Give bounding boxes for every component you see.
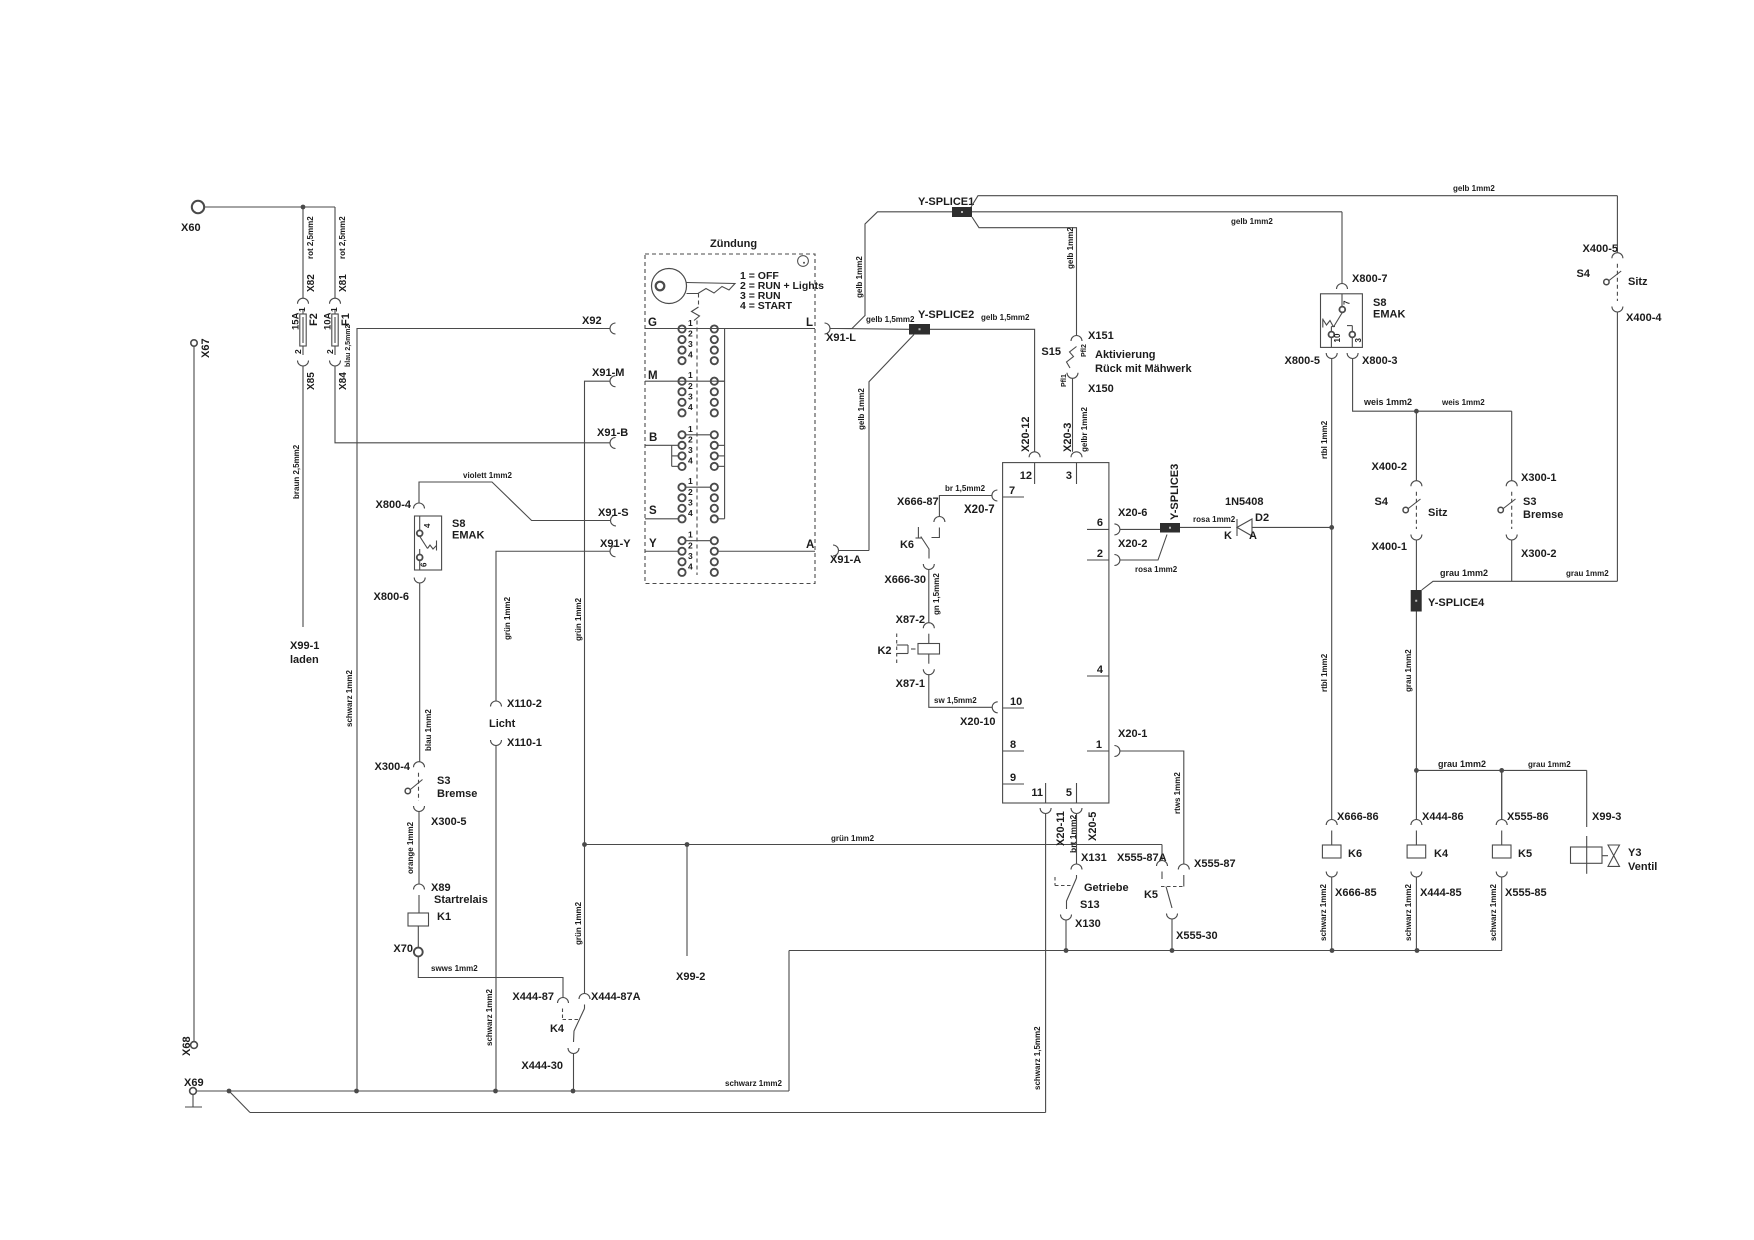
svg-text:Zündung: Zündung bbox=[710, 238, 757, 250]
svg-text:X99-3: X99-3 bbox=[1592, 811, 1621, 823]
svg-text:K6: K6 bbox=[900, 539, 914, 551]
svg-text:3: 3 bbox=[688, 551, 693, 561]
svg-text:Y-SPLICE4: Y-SPLICE4 bbox=[1428, 597, 1485, 609]
svg-text:X666-86: X666-86 bbox=[1337, 811, 1379, 823]
svg-text:X91-L: X91-L bbox=[826, 332, 856, 344]
svg-text:weis 1mm2: weis 1mm2 bbox=[1363, 397, 1412, 407]
svg-text:Startrelais: Startrelais bbox=[434, 894, 488, 906]
svg-text:rot 2,5mm2: rot 2,5mm2 bbox=[338, 216, 347, 259]
svg-text:2: 2 bbox=[688, 540, 693, 550]
svg-text:7: 7 bbox=[1009, 485, 1015, 497]
svg-text:11: 11 bbox=[1031, 787, 1043, 799]
svg-text:3: 3 bbox=[1066, 470, 1072, 482]
svg-text:5: 5 bbox=[1066, 787, 1072, 799]
svg-text:X444-87A: X444-87A bbox=[591, 991, 641, 1003]
svg-text:4: 4 bbox=[688, 561, 693, 571]
svg-text:X130: X130 bbox=[1075, 918, 1101, 930]
svg-text:10: 10 bbox=[1333, 333, 1342, 342]
svg-text:4: 4 bbox=[688, 508, 693, 518]
svg-text:gelbr 1mm2: gelbr 1mm2 bbox=[1080, 407, 1089, 452]
svg-text:gn 1,5mm2: gn 1,5mm2 bbox=[932, 573, 941, 615]
svg-text:X81: X81 bbox=[338, 274, 349, 292]
svg-text:K4: K4 bbox=[550, 1023, 565, 1035]
svg-text:6: 6 bbox=[1097, 517, 1103, 529]
svg-text:grau 1mm2: grau 1mm2 bbox=[1438, 759, 1486, 769]
svg-text:3: 3 bbox=[688, 391, 693, 401]
svg-text:X800-6: X800-6 bbox=[374, 591, 409, 603]
svg-text:3: 3 bbox=[688, 339, 693, 349]
svg-text:schwarz 1mm2: schwarz 1mm2 bbox=[1404, 884, 1413, 941]
svg-text:S3: S3 bbox=[1523, 496, 1536, 508]
svg-text:X69: X69 bbox=[184, 1077, 204, 1089]
svg-text:2: 2 bbox=[688, 487, 693, 497]
svg-text:X800-4: X800-4 bbox=[376, 499, 412, 511]
svg-text:Pfl2: Pfl2 bbox=[1081, 344, 1088, 357]
svg-text:B: B bbox=[649, 432, 657, 444]
svg-text:grau 1mm2: grau 1mm2 bbox=[1440, 568, 1488, 578]
svg-text:X91-B: X91-B bbox=[597, 427, 628, 439]
svg-text:D2: D2 bbox=[1255, 512, 1269, 524]
svg-text:grün 1mm2: grün 1mm2 bbox=[831, 834, 875, 843]
svg-text:braun 2,5mm2: braun 2,5mm2 bbox=[292, 444, 301, 499]
svg-text:Bremse: Bremse bbox=[1523, 509, 1563, 521]
svg-text:S8: S8 bbox=[1373, 297, 1386, 309]
svg-text:X555-87: X555-87 bbox=[1194, 858, 1236, 870]
svg-text:4: 4 bbox=[688, 455, 693, 465]
svg-text:Ventil: Ventil bbox=[1628, 861, 1657, 873]
svg-text:1: 1 bbox=[329, 307, 339, 312]
svg-text:br 1,5mm2: br 1,5mm2 bbox=[945, 484, 986, 493]
svg-text:12: 12 bbox=[1020, 470, 1032, 482]
svg-text:gelb 1mm2: gelb 1mm2 bbox=[1066, 227, 1075, 269]
svg-text:schwarz 1mm2: schwarz 1mm2 bbox=[725, 1079, 782, 1088]
svg-text:schwarz 1mm2: schwarz 1mm2 bbox=[1319, 884, 1328, 941]
svg-text:X300-4: X300-4 bbox=[375, 761, 411, 773]
svg-text:X444-87: X444-87 bbox=[512, 991, 554, 1003]
svg-text:6: 6 bbox=[420, 562, 429, 567]
svg-text:Y3: Y3 bbox=[1628, 847, 1641, 859]
svg-text:10: 10 bbox=[1010, 696, 1022, 708]
svg-text:Pfl1: Pfl1 bbox=[1061, 374, 1068, 387]
svg-text:X91-Y: X91-Y bbox=[600, 538, 631, 550]
svg-text:L: L bbox=[806, 317, 813, 329]
svg-text:X84: X84 bbox=[338, 372, 349, 390]
svg-text:X20-6: X20-6 bbox=[1118, 507, 1147, 519]
svg-text:gelb 1mm2: gelb 1mm2 bbox=[857, 388, 866, 430]
svg-text:sw 1,5mm2: sw 1,5mm2 bbox=[934, 696, 977, 705]
svg-text:Bremse: Bremse bbox=[437, 788, 477, 800]
svg-text:K1: K1 bbox=[437, 911, 451, 923]
svg-text:X151: X151 bbox=[1088, 330, 1114, 342]
svg-text:gelb 1,5mm2: gelb 1,5mm2 bbox=[866, 315, 915, 324]
svg-text:2: 2 bbox=[293, 349, 303, 354]
svg-text:S3: S3 bbox=[437, 775, 450, 787]
svg-text:1: 1 bbox=[688, 318, 693, 328]
svg-text:X87-1: X87-1 bbox=[896, 678, 925, 690]
svg-text:4: 4 bbox=[423, 523, 432, 528]
svg-text:rtbl 1mm2: rtbl 1mm2 bbox=[1320, 420, 1329, 459]
svg-text:grün 1mm2: grün 1mm2 bbox=[574, 597, 583, 641]
svg-text:X20-2: X20-2 bbox=[1118, 538, 1147, 550]
svg-text:gelb 1,5mm2: gelb 1,5mm2 bbox=[981, 313, 1030, 322]
svg-text:swws 1mm2: swws 1mm2 bbox=[431, 964, 478, 973]
svg-text:2: 2 bbox=[1097, 548, 1103, 560]
svg-text:X150: X150 bbox=[1088, 383, 1114, 395]
svg-text:grün 1mm2: grün 1mm2 bbox=[503, 596, 512, 640]
svg-text:schwarz 1,5mm2: schwarz 1,5mm2 bbox=[1033, 1026, 1042, 1090]
svg-text:Licht: Licht bbox=[489, 718, 516, 730]
svg-text:A: A bbox=[1249, 530, 1257, 542]
svg-text:X110-1: X110-1 bbox=[507, 737, 542, 749]
svg-text:X444-85: X444-85 bbox=[1420, 887, 1462, 899]
svg-text:X20-5: X20-5 bbox=[1087, 812, 1099, 841]
svg-text:X92: X92 bbox=[582, 315, 602, 327]
svg-text:grau 1mm2: grau 1mm2 bbox=[1404, 649, 1413, 692]
svg-text:X800-7: X800-7 bbox=[1352, 273, 1387, 285]
svg-text:X60: X60 bbox=[181, 222, 201, 234]
svg-text:1: 1 bbox=[1096, 739, 1102, 751]
svg-text:grün 1mm2: grün 1mm2 bbox=[574, 901, 583, 945]
svg-text:M: M bbox=[648, 370, 658, 382]
svg-text:X82: X82 bbox=[306, 274, 317, 292]
svg-text:X20-1: X20-1 bbox=[1118, 728, 1147, 740]
svg-text:X70: X70 bbox=[393, 943, 413, 955]
svg-text:K4: K4 bbox=[1434, 848, 1449, 860]
svg-text:X91-A: X91-A bbox=[830, 554, 861, 566]
svg-text:Y: Y bbox=[649, 538, 657, 550]
svg-text:Y-SPLICE2: Y-SPLICE2 bbox=[918, 309, 974, 321]
svg-text:1N5408: 1N5408 bbox=[1225, 496, 1264, 508]
svg-text:X400-1: X400-1 bbox=[1372, 541, 1407, 553]
svg-text:X555-86: X555-86 bbox=[1507, 811, 1549, 823]
svg-text:rtws 1mm2: rtws 1mm2 bbox=[1173, 772, 1182, 814]
svg-text:X99-1: X99-1 bbox=[290, 640, 319, 652]
svg-text:rosa 1mm2: rosa 1mm2 bbox=[1193, 515, 1236, 524]
svg-text:2: 2 bbox=[688, 381, 693, 391]
svg-text:rtbl 1mm2: rtbl 1mm2 bbox=[1320, 653, 1329, 692]
svg-text:X20-3: X20-3 bbox=[1062, 423, 1074, 452]
svg-text:S8: S8 bbox=[452, 518, 465, 530]
svg-text:9: 9 bbox=[1010, 772, 1016, 784]
svg-text:X800-3: X800-3 bbox=[1362, 355, 1397, 367]
svg-text:X20-12: X20-12 bbox=[1020, 417, 1032, 452]
svg-text:X800-5: X800-5 bbox=[1285, 355, 1320, 367]
svg-text:X20-7: X20-7 bbox=[964, 504, 995, 516]
svg-text:F2: F2 bbox=[308, 313, 320, 326]
svg-text:Getriebe: Getriebe bbox=[1084, 882, 1129, 894]
svg-text:blau 1mm2: blau 1mm2 bbox=[424, 709, 433, 751]
svg-text:Rück mit Mähwerk: Rück mit Mähwerk bbox=[1095, 363, 1192, 375]
svg-text:gelb 1mm2: gelb 1mm2 bbox=[1453, 184, 1495, 193]
svg-text:K: K bbox=[1224, 530, 1232, 542]
svg-text:1: 1 bbox=[688, 370, 693, 380]
svg-text:X67: X67 bbox=[200, 338, 212, 358]
svg-text:X300-5: X300-5 bbox=[431, 816, 466, 828]
svg-text:orange 1mm2: orange 1mm2 bbox=[406, 821, 415, 874]
svg-text:X666-85: X666-85 bbox=[1335, 887, 1377, 899]
svg-text:schwarz 1mm2: schwarz 1mm2 bbox=[345, 670, 354, 727]
svg-text:X110-2: X110-2 bbox=[507, 698, 542, 710]
svg-text:G: G bbox=[648, 317, 657, 329]
svg-text:F1: F1 bbox=[340, 313, 352, 326]
svg-text:weis 1mm2: weis 1mm2 bbox=[1441, 398, 1485, 407]
svg-text:4: 4 bbox=[688, 402, 693, 412]
svg-text:X666-87: X666-87 bbox=[897, 496, 939, 508]
svg-text:10A: 10A bbox=[323, 312, 334, 330]
svg-text:X555-87A: X555-87A bbox=[1117, 852, 1167, 864]
svg-text:S4: S4 bbox=[1375, 496, 1389, 508]
svg-text:K5: K5 bbox=[1144, 889, 1158, 901]
svg-text:Y-SPLICE3: Y-SPLICE3 bbox=[1169, 464, 1181, 520]
svg-text:K6: K6 bbox=[1348, 848, 1362, 860]
svg-text:K2: K2 bbox=[877, 645, 891, 657]
svg-text:X444-86: X444-86 bbox=[1422, 811, 1464, 823]
svg-text:1: 1 bbox=[688, 530, 693, 540]
svg-text:K5: K5 bbox=[1518, 848, 1532, 860]
svg-text:X89: X89 bbox=[431, 882, 451, 894]
svg-text:EMAK: EMAK bbox=[1373, 309, 1405, 321]
svg-text:4: 4 bbox=[1097, 664, 1104, 676]
svg-text:15A: 15A bbox=[291, 312, 302, 330]
svg-text:schwarz 1mm2: schwarz 1mm2 bbox=[1489, 884, 1498, 941]
svg-text:S4: S4 bbox=[1577, 268, 1591, 280]
svg-text:rot 2,5mm2: rot 2,5mm2 bbox=[306, 216, 315, 259]
svg-text:X444-30: X444-30 bbox=[521, 1060, 563, 1072]
svg-text:S: S bbox=[649, 505, 657, 517]
svg-text:X555-85: X555-85 bbox=[1505, 887, 1547, 899]
svg-text:schwarz 1mm2: schwarz 1mm2 bbox=[485, 989, 494, 1046]
svg-text:laden: laden bbox=[290, 654, 319, 666]
svg-text:X300-1: X300-1 bbox=[1521, 472, 1556, 484]
svg-text:grau 1mm2: grau 1mm2 bbox=[1528, 760, 1571, 769]
svg-text:4: 4 bbox=[688, 350, 693, 360]
svg-text:X131: X131 bbox=[1081, 852, 1107, 864]
svg-text:gelb 1mm2: gelb 1mm2 bbox=[855, 256, 864, 298]
svg-text:Y-SPLICE1: Y-SPLICE1 bbox=[918, 196, 974, 208]
svg-text:X68: X68 bbox=[181, 1036, 193, 1056]
svg-text:gelb 1mm2: gelb 1mm2 bbox=[1231, 217, 1273, 226]
svg-text:violett 1mm2: violett 1mm2 bbox=[463, 471, 512, 480]
svg-text:Sitz: Sitz bbox=[1628, 276, 1648, 288]
svg-text:1: 1 bbox=[297, 307, 307, 312]
svg-text:rosa 1mm2: rosa 1mm2 bbox=[1135, 565, 1178, 574]
svg-text:X91-M: X91-M bbox=[592, 367, 624, 379]
svg-text:Sitz: Sitz bbox=[1428, 507, 1448, 519]
svg-text:7: 7 bbox=[1343, 300, 1352, 305]
svg-text:X555-30: X555-30 bbox=[1176, 930, 1218, 942]
svg-text:1: 1 bbox=[688, 424, 693, 434]
svg-text:X85: X85 bbox=[306, 372, 317, 390]
svg-text:X99-2: X99-2 bbox=[676, 971, 705, 983]
svg-text:X400-4: X400-4 bbox=[1626, 312, 1662, 324]
svg-text:S15: S15 bbox=[1041, 346, 1061, 358]
svg-text:2: 2 bbox=[688, 434, 693, 444]
svg-text:X87-2: X87-2 bbox=[896, 614, 925, 626]
svg-text:2: 2 bbox=[325, 349, 335, 354]
svg-text:EMAK: EMAK bbox=[452, 530, 484, 542]
svg-text:3: 3 bbox=[1354, 338, 1363, 343]
svg-text:8: 8 bbox=[1010, 739, 1016, 751]
svg-text:X20-11: X20-11 bbox=[1055, 811, 1067, 846]
svg-text:3: 3 bbox=[688, 497, 693, 507]
svg-text:1: 1 bbox=[688, 476, 693, 486]
svg-text:Aktivierung: Aktivierung bbox=[1095, 349, 1156, 361]
svg-text:blau 2,5mm2: blau 2,5mm2 bbox=[345, 324, 352, 367]
svg-text:S13: S13 bbox=[1080, 899, 1100, 911]
svg-text:X20-10: X20-10 bbox=[960, 716, 995, 728]
svg-text:X400-5: X400-5 bbox=[1583, 243, 1618, 255]
svg-text:X300-2: X300-2 bbox=[1521, 548, 1556, 560]
svg-text:X666-30: X666-30 bbox=[884, 574, 926, 586]
svg-text:A: A bbox=[806, 539, 814, 551]
svg-text:2: 2 bbox=[688, 329, 693, 339]
svg-text:X400-2: X400-2 bbox=[1372, 461, 1407, 473]
svg-text:X91-S: X91-S bbox=[598, 507, 629, 519]
svg-text:4 = START: 4 = START bbox=[740, 300, 793, 312]
svg-text:3: 3 bbox=[688, 445, 693, 455]
svg-text:grau 1mm2: grau 1mm2 bbox=[1566, 569, 1609, 578]
